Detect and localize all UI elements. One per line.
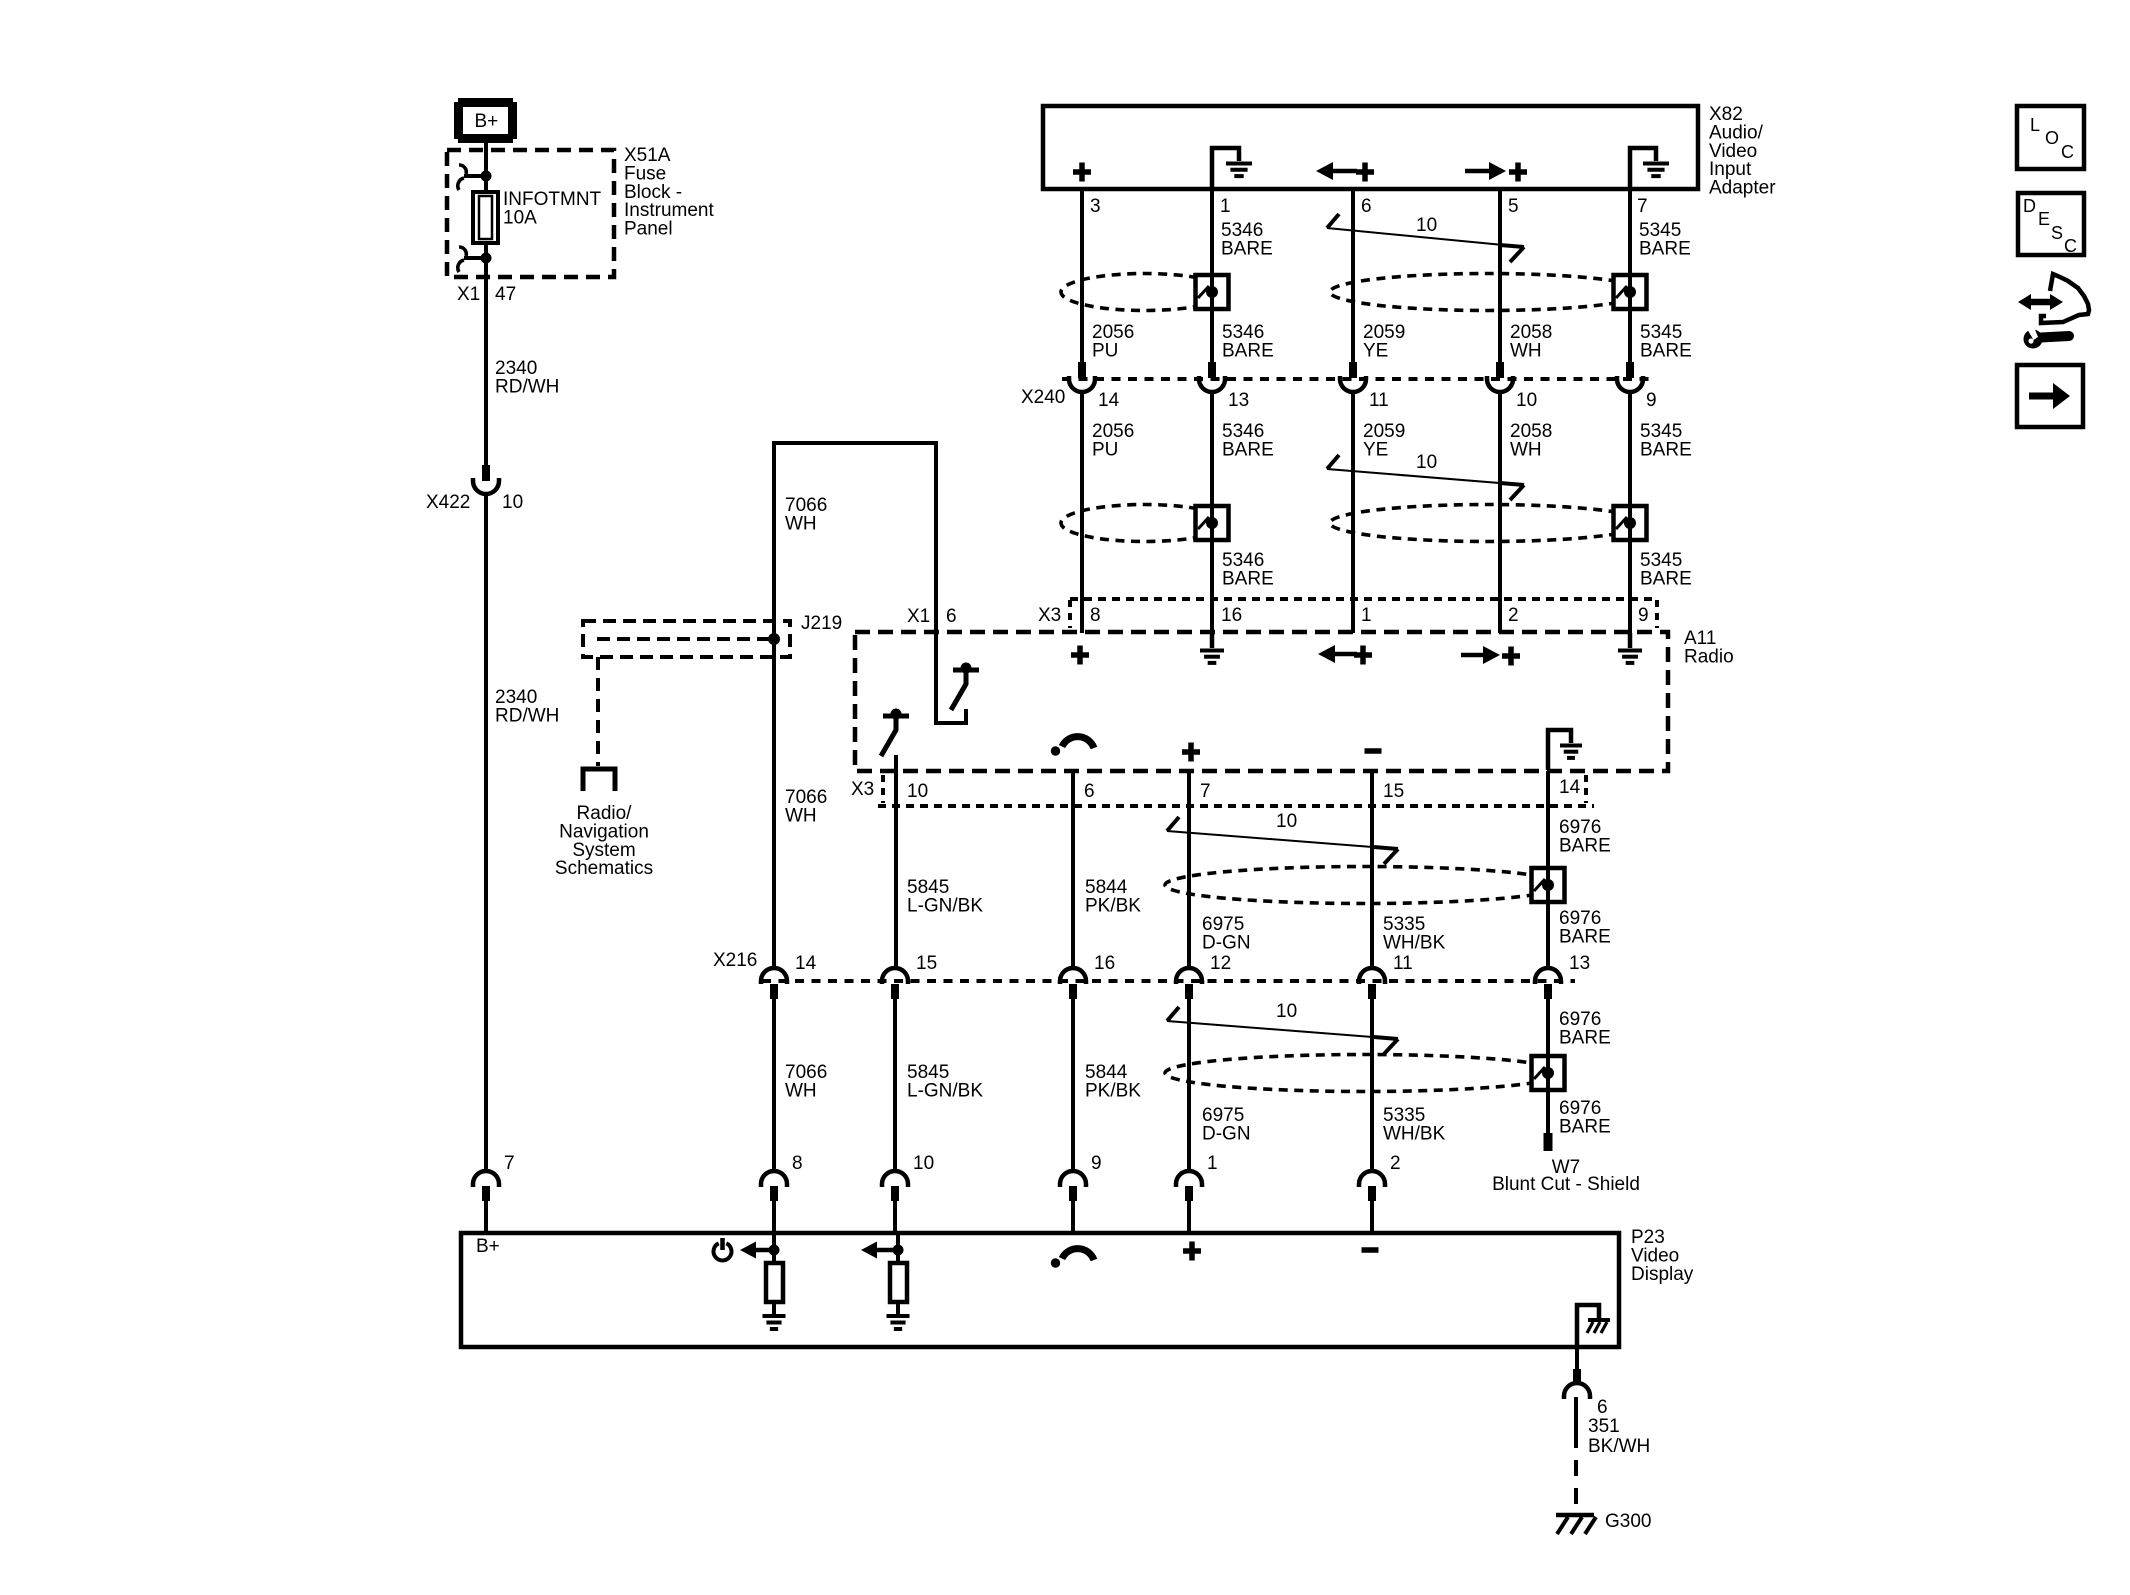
svg-text:Adapter: Adapter [1709, 177, 1776, 198]
wire junction to fuse [484, 176, 488, 194]
radio pin8 plus symbol [1071, 646, 1089, 665]
P23 pin10 wire to resistor [896, 1250, 900, 1264]
radio pin14 internal ground [1548, 730, 1571, 770]
svg-text:14: 14 [795, 953, 817, 974]
svg-text:J219: J219 [801, 613, 842, 634]
wire 2056 PU X240 to radio [1080, 392, 1084, 633]
svg-text:PK/BK: PK/BK [1085, 1081, 1141, 1102]
svg-text:9: 9 [1091, 1153, 1102, 1174]
P23 pin8 interior wire [772, 1233, 776, 1264]
svg-text:PK/BK: PK/BK [1085, 896, 1141, 917]
svg-text:PU: PU [1092, 440, 1118, 461]
P23 pin8 wire to resistor [772, 1250, 776, 1264]
svg-text:Schematics: Schematics [555, 858, 653, 879]
svg-text:10: 10 [907, 781, 928, 802]
component A11 Radio dashed box [855, 632, 1668, 771]
wire 2340 RD/WH lower segment [484, 494, 488, 1171]
wire 5845 L-GN/BK X216 to P23 [893, 999, 897, 1171]
wire 351 BK/WH dashed part [1574, 1432, 1578, 1514]
svg-text:RD/WH: RD/WH [495, 377, 559, 398]
wire 5845 L-GN/BK radio to X216 [894, 755, 898, 969]
P23 pin10 wire to ground [896, 1302, 900, 1316]
X240 connector pin 13 [1208, 362, 1216, 378]
wire 5346 BARE X82 to X240 [1210, 189, 1214, 362]
shield ellipse row2 left [1061, 505, 1228, 542]
P23 pin8 arrow into power [740, 1242, 756, 1259]
radio X1-6 internal wire hook [936, 633, 966, 723]
P23 pin6 internal chassis ground [1577, 1305, 1599, 1347]
icon diagnostic double arrow [2018, 294, 2031, 310]
radio pin7 plus symbol [1182, 743, 1200, 762]
svg-text:X422: X422 [426, 492, 470, 513]
shield ellipse row1 left [1061, 274, 1228, 311]
radio X3 bottom connector dotted line [878, 804, 1594, 808]
connector row X216 dashed line [762, 979, 1575, 983]
twisted pair symbol upper with label 10 [1327, 228, 1524, 247]
svg-text:10: 10 [913, 1153, 934, 1174]
svg-text:47: 47 [495, 284, 516, 305]
wire 6975 D-GN radio to X216 [1187, 771, 1191, 969]
fuse block X51A dashed box [447, 150, 614, 277]
svg-text:BARE: BARE [1559, 1028, 1611, 1049]
component P23 Video Display box [461, 1233, 1619, 1347]
wire 5345 BARE X240 to radio [1628, 392, 1632, 633]
svg-text:351: 351 [1588, 1416, 1620, 1437]
svg-text:B+: B+ [476, 1236, 500, 1257]
shield ellipse row2 right [1330, 505, 1646, 542]
P23 pin8 resistor [766, 1263, 783, 1302]
X216 connector pin 13 [1535, 968, 1561, 984]
shield ellipse row3 [1165, 867, 1564, 904]
svg-text:6: 6 [946, 606, 957, 627]
twisted pair symbol third with label 10 [1167, 831, 1398, 849]
W7 blunt cut shield stub [1544, 1133, 1553, 1151]
svg-text:L-GN/BK: L-GN/BK [907, 896, 983, 917]
svg-text:C: C [2061, 142, 2074, 162]
icon DESC box [2018, 193, 2084, 255]
radio pin15 minus symbol [1365, 748, 1382, 754]
wire 2059 YE X82 to X240 [1351, 189, 1355, 362]
radio X3-10 internal terminal [883, 714, 909, 719]
wire 2056 PU X82 to X240 [1080, 189, 1084, 362]
svg-text:15: 15 [916, 953, 937, 974]
svg-text:B+: B+ [475, 111, 499, 132]
svg-text:D: D [2023, 196, 2036, 216]
ground G300 [1556, 1513, 1594, 1518]
splice J219 junction dot [768, 633, 780, 645]
P23 pin8 internal ground [763, 1314, 786, 1318]
svg-text:D-GN: D-GN [1202, 933, 1251, 954]
wire 5345 BARE X82 to X240 [1628, 189, 1632, 362]
svg-text:E: E [2038, 209, 2050, 229]
fuse INFOTMNT 10A [473, 192, 498, 243]
svg-text:6: 6 [1361, 196, 1372, 217]
P23 pin10 interior wire [896, 1233, 900, 1264]
wire 5335 WH/BK X216 to P23 [1370, 999, 1374, 1171]
wire 5844 PK/BK X216 to P23 [1071, 999, 1075, 1171]
wire 5335 WH/BK radio to X216 [1370, 771, 1374, 969]
svg-text:7: 7 [1200, 781, 1211, 802]
splice J219 dashed callout box [583, 621, 790, 657]
P23 pin10 internal ground [887, 1314, 910, 1318]
shield drain box row1 left [1196, 275, 1229, 309]
radio pin6 volume knob symbol [1051, 746, 1060, 755]
svg-text:9: 9 [1646, 390, 1657, 411]
icon LOC box [2017, 106, 2084, 169]
P23 pin2 minus symbol [1362, 1247, 1379, 1253]
shield drain box row1 right [1614, 275, 1647, 309]
svg-text:WH/BK: WH/BK [1383, 1124, 1446, 1145]
shield ellipse row1 right [1330, 274, 1646, 311]
svg-text:X216: X216 [713, 950, 757, 971]
shield ellipse row4 [1165, 1055, 1564, 1092]
X82 pin7 internal ground [1630, 148, 1656, 189]
radio X1-6 internal terminal [953, 668, 979, 673]
svg-text:7: 7 [1637, 196, 1648, 217]
radio pin9 internal ground [1628, 633, 1633, 648]
icon next-page arrow box [2017, 365, 2083, 427]
svg-text:Panel: Panel [624, 218, 673, 239]
svg-text:10A: 10A [503, 208, 537, 229]
wire 7066 WH riser from X216 up and over to radio X1-6 [774, 443, 936, 969]
svg-text:X240: X240 [1021, 387, 1065, 408]
connector X422 female cup [473, 478, 499, 494]
svg-text:X1: X1 [907, 606, 930, 627]
svg-text:Radio: Radio [1684, 647, 1734, 668]
shield drain box row2 left [1196, 506, 1229, 540]
svg-text:10: 10 [1516, 390, 1537, 411]
svg-text:L-GN/BK: L-GN/BK [907, 1081, 983, 1102]
battery feed terminal B+ [458, 98, 513, 143]
svg-text:14: 14 [1098, 390, 1120, 411]
X240 connector pin 14 [1078, 362, 1086, 378]
P23 pin10 arrow [861, 1242, 877, 1259]
svg-text:BARE: BARE [1222, 440, 1274, 461]
svg-text:Blunt Cut - Shield: Blunt Cut - Shield [1492, 1174, 1640, 1195]
svg-text:8: 8 [792, 1153, 803, 1174]
X216 connector pin 14 [761, 968, 787, 984]
svg-text:YE: YE [1363, 440, 1388, 461]
radio pin16 internal ground [1210, 633, 1215, 648]
shield drain box row4 [1532, 1056, 1565, 1090]
X82 pin6 left-arrow plus symbol [1316, 162, 1333, 180]
svg-text:2: 2 [1508, 605, 1519, 626]
X216 connector pin 15 [882, 968, 908, 984]
svg-text:1: 1 [1207, 1153, 1218, 1174]
svg-text:WH: WH [1510, 341, 1542, 362]
svg-text:BARE: BARE [1640, 569, 1692, 590]
svg-text:1: 1 [1361, 605, 1372, 626]
P23 power symbol [714, 1243, 732, 1260]
svg-text:6: 6 [1597, 1397, 1608, 1418]
svg-text:Display: Display [1631, 1264, 1694, 1285]
X240 connector pin 10 [1496, 362, 1504, 378]
radio pin2 right-arrow plus [1483, 646, 1500, 664]
wire 2058 WH X82 to X240 [1498, 189, 1502, 362]
radio pin1 left-arrow plus [1318, 645, 1335, 663]
wire 7066 WH X216 to P23 [772, 999, 776, 1171]
svg-text:WH: WH [785, 514, 817, 535]
fuse clip terminal lower [464, 256, 486, 260]
P23 pin6 connector [1573, 1369, 1581, 1384]
X240 connector pin 9 [1626, 362, 1634, 378]
wire 2059 YE X240 to radio [1351, 392, 1355, 633]
svg-text:BARE: BARE [1639, 239, 1691, 260]
fuse clip terminal upper [464, 174, 486, 178]
svg-text:X3: X3 [1038, 605, 1061, 626]
svg-text:BARE: BARE [1559, 1117, 1611, 1138]
svg-text:BARE: BARE [1222, 569, 1274, 590]
svg-text:2: 2 [1390, 1153, 1401, 1174]
dashed reference wire to off-page [596, 657, 600, 766]
connector X422 male stub [482, 465, 490, 481]
svg-text:3: 3 [1090, 196, 1101, 217]
P23 pin10 resistor [890, 1263, 907, 1302]
svg-text:WH: WH [785, 806, 817, 827]
svg-text:YE: YE [1363, 341, 1388, 362]
X82 pin3 plus symbol [1073, 163, 1091, 182]
svg-text:WH: WH [1510, 440, 1542, 461]
wire 6976 BARE X216 to blunt cut [1546, 999, 1550, 1133]
X216 connector pin 16 [1060, 968, 1086, 984]
wire 6975 D-GN X216 to P23 [1187, 999, 1191, 1171]
wire P23 pin6 below box [1575, 1347, 1579, 1369]
svg-text:X1: X1 [457, 284, 480, 305]
svg-text:10: 10 [1416, 215, 1437, 236]
svg-text:L: L [2030, 115, 2040, 135]
twisted pair symbol fourth with label 10 [1167, 1021, 1398, 1039]
icon diagnostic car outline [2041, 274, 2089, 323]
svg-text:10: 10 [1276, 811, 1297, 832]
svg-text:O: O [2045, 128, 2059, 148]
svg-text:D-GN: D-GN [1202, 1124, 1251, 1145]
P23 pin8 wire to ground [772, 1302, 776, 1316]
X240 connector pin 11 [1349, 362, 1357, 378]
svg-text:10: 10 [1276, 1001, 1297, 1022]
icon diagnostic wrench [2024, 330, 2043, 349]
svg-text:1: 1 [1220, 196, 1231, 217]
svg-text:BARE: BARE [1559, 927, 1611, 948]
wire 6976 BARE radio to X216 [1546, 771, 1550, 969]
svg-text:12: 12 [1210, 953, 1231, 974]
svg-text:S: S [2051, 223, 2063, 243]
svg-text:16: 16 [1094, 953, 1115, 974]
wire 5346 BARE X240 to radio [1210, 392, 1214, 633]
X82 pin5 right-arrow plus symbol [1489, 162, 1506, 180]
svg-text:8: 8 [1090, 605, 1101, 626]
svg-text:RD/WH: RD/WH [495, 706, 559, 727]
svg-text:BARE: BARE [1640, 440, 1692, 461]
svg-text:BK/WH: BK/WH [1588, 1436, 1650, 1457]
svg-text:15: 15 [1383, 781, 1404, 802]
svg-text:BARE: BARE [1640, 341, 1692, 362]
wire from B+ into fuse block [484, 142, 488, 176]
svg-text:C: C [2064, 236, 2077, 256]
svg-text:BARE: BARE [1559, 836, 1611, 857]
svg-text:7: 7 [504, 1153, 515, 1174]
svg-text:9: 9 [1638, 605, 1649, 626]
svg-text:BARE: BARE [1222, 341, 1274, 362]
svg-text:X3: X3 [851, 779, 874, 800]
svg-text:WH: WH [785, 1081, 817, 1102]
X216 connector pin 11 [1359, 968, 1385, 984]
X216 connector pin 12 [1176, 968, 1202, 984]
svg-text:13: 13 [1228, 390, 1249, 411]
wire fuse to lower clip [484, 243, 488, 277]
svg-text:11: 11 [1393, 953, 1413, 974]
svg-text:14: 14 [1559, 777, 1581, 798]
connector row X240 dashed line [1062, 377, 1651, 381]
svg-text:BARE: BARE [1221, 239, 1273, 260]
svg-text:10: 10 [502, 492, 523, 513]
off-page reference bracket [583, 769, 615, 791]
svg-text:10: 10 [1416, 452, 1437, 473]
wire 5844 PK/BK radio to X216 [1071, 771, 1075, 969]
svg-text:16: 16 [1221, 605, 1242, 626]
svg-text:PU: PU [1092, 341, 1118, 362]
wire 2340 RD/WH upper segment [484, 277, 488, 466]
P23 pin1 plus symbol [1183, 1242, 1201, 1261]
X82 pin1 internal ground [1212, 148, 1239, 189]
svg-text:G300: G300 [1605, 1511, 1651, 1532]
shield drain box row3 [1532, 868, 1565, 902]
twisted pair symbol second with label 10 [1327, 469, 1524, 485]
svg-text:13: 13 [1569, 953, 1590, 974]
wire 351 BK/WH solid part [1574, 1397, 1578, 1432]
svg-text:6: 6 [1084, 781, 1095, 802]
svg-text:5: 5 [1508, 196, 1519, 217]
radio X3 top connector dotted line [1070, 597, 1656, 601]
svg-text:11: 11 [1369, 390, 1389, 411]
svg-text:WH/BK: WH/BK [1383, 933, 1446, 954]
component X82 Audio/Video Input Adapter box [1043, 106, 1698, 189]
P23 pin9 volume knob symbol [1051, 1258, 1060, 1267]
wire 2058 WH X240 to radio [1498, 392, 1502, 633]
shield drain box row2 right [1614, 506, 1647, 540]
